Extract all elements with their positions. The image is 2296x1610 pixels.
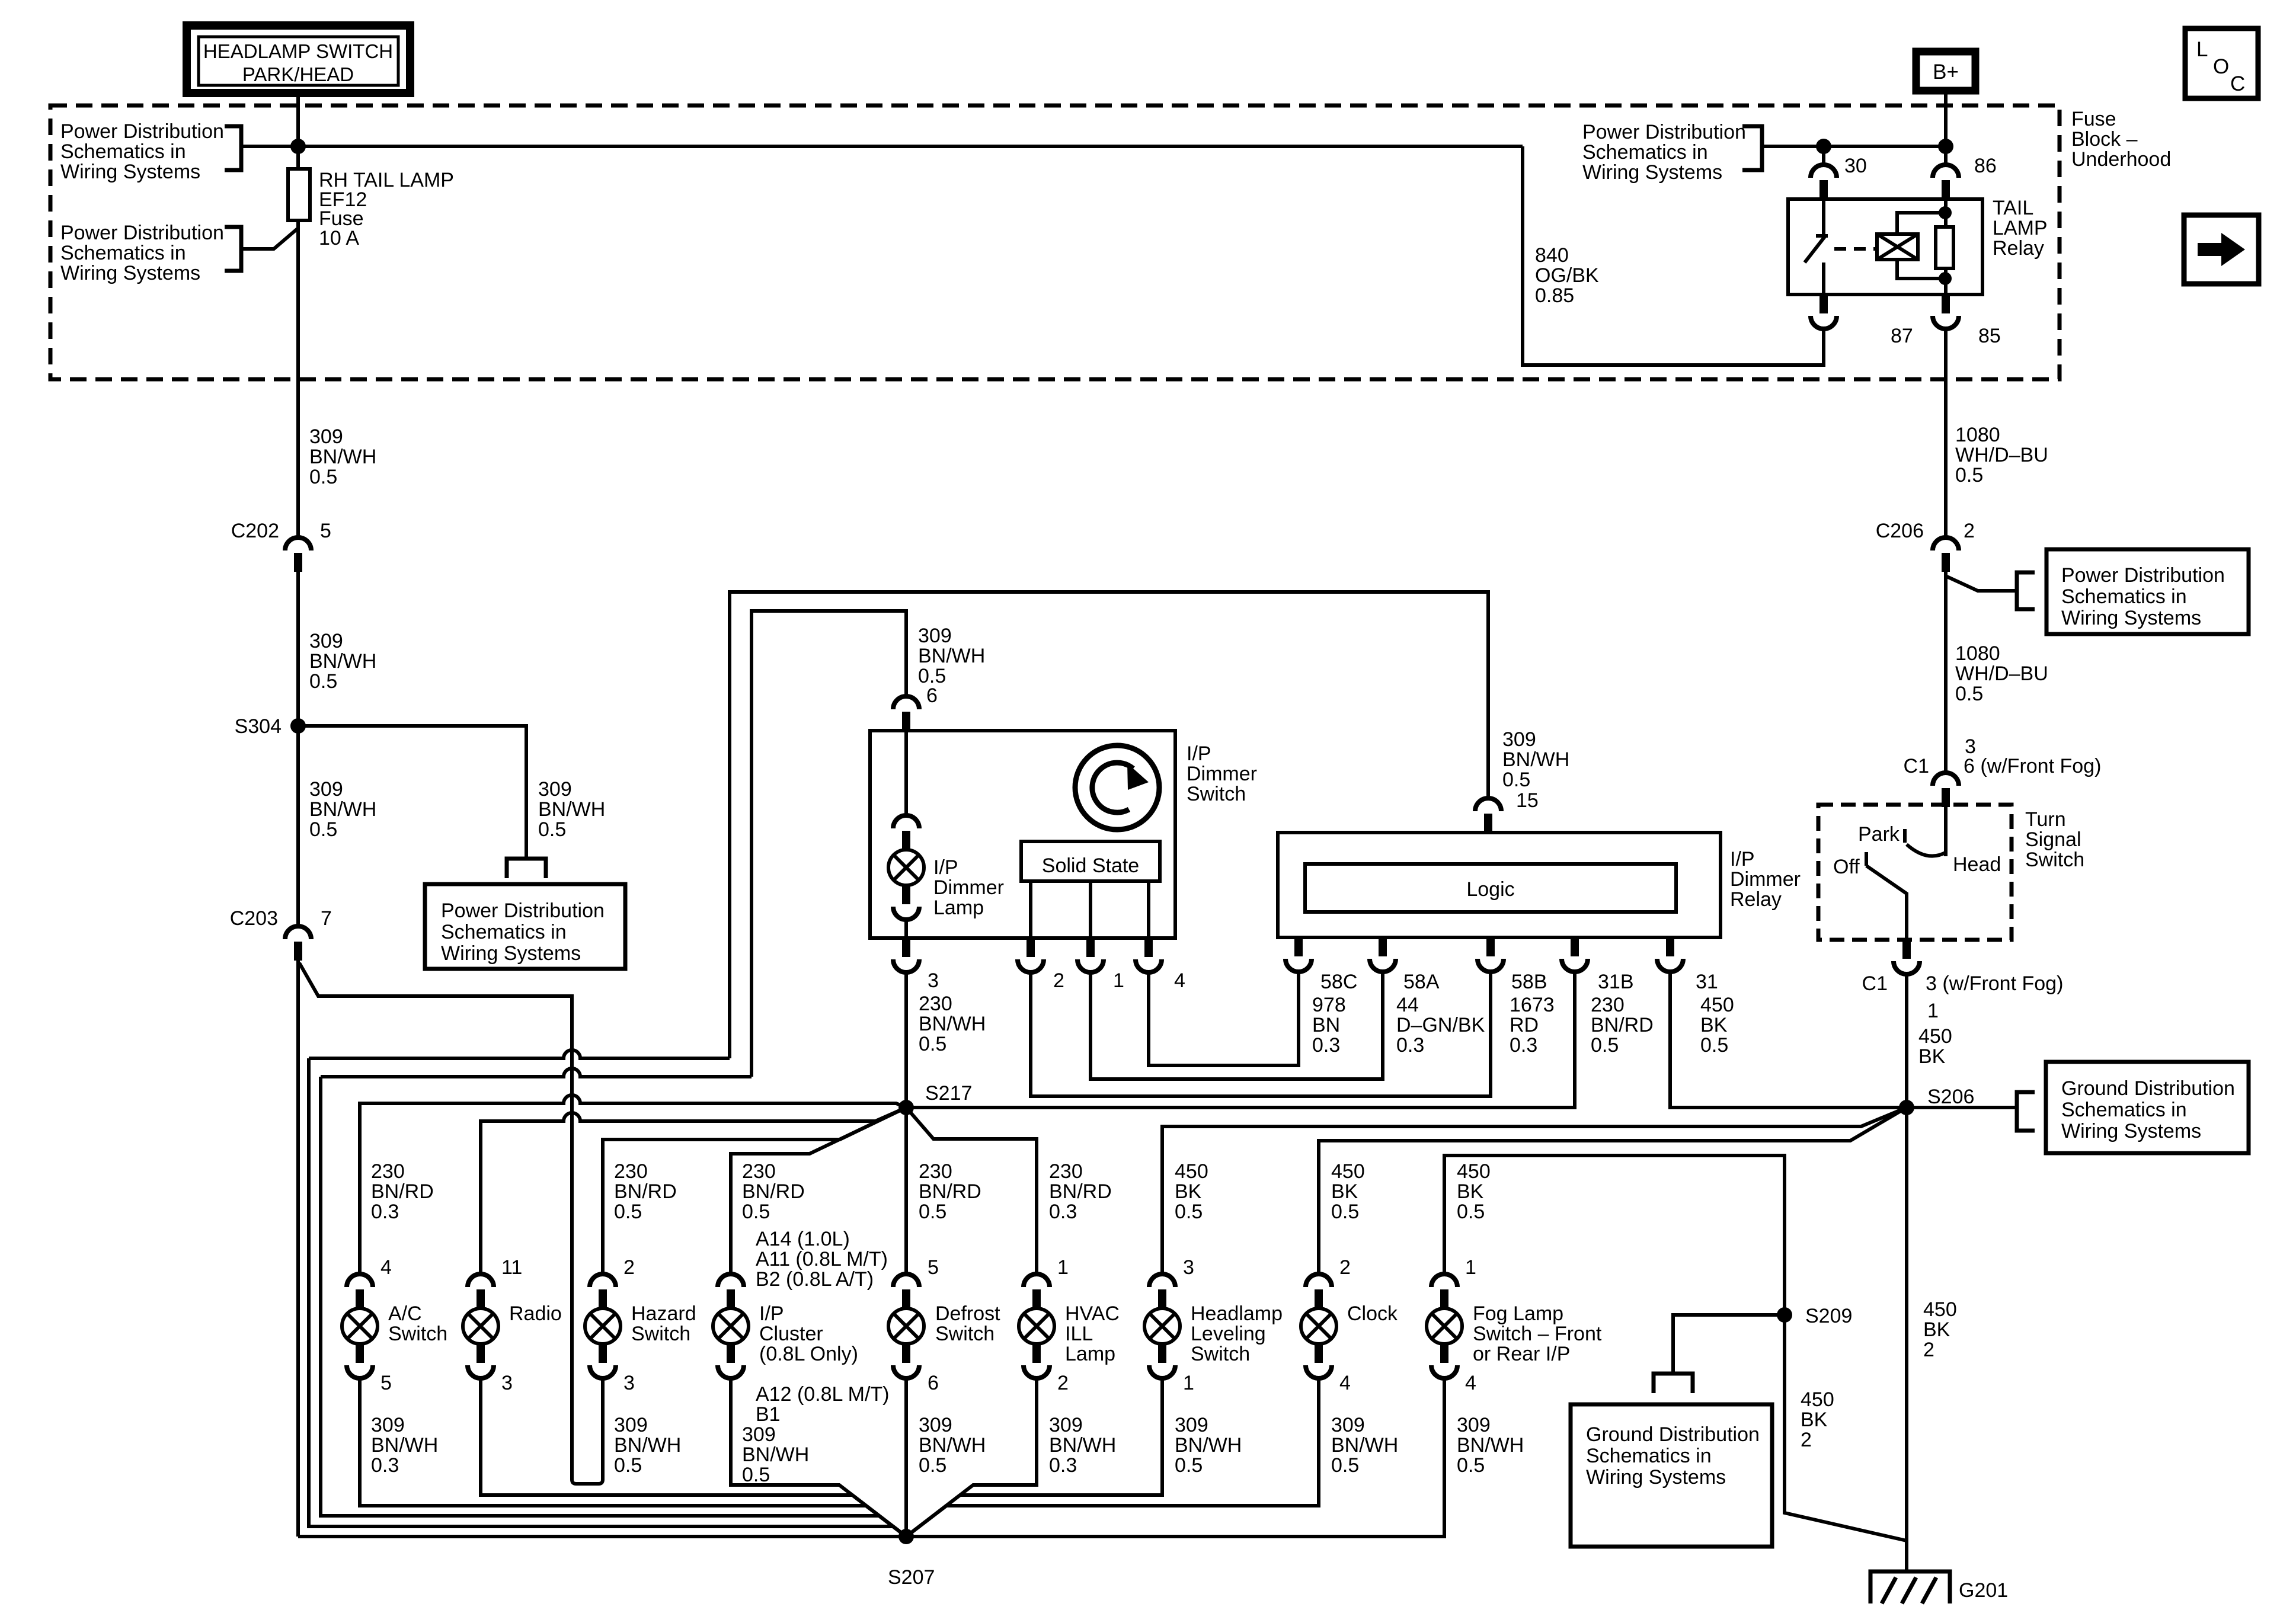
svg-text:Cluster: Cluster <box>759 1323 823 1345</box>
svg-text:BN/WH: BN/WH <box>614 1434 681 1457</box>
svg-text:0.5: 0.5 <box>309 466 337 488</box>
svg-text:I/P: I/P <box>933 856 958 879</box>
svg-text:Ground Distribution: Ground Distribution <box>1586 1423 1760 1446</box>
svg-text:C206: C206 <box>1876 520 1924 542</box>
svg-text:230: 230 <box>1591 994 1625 1016</box>
svg-text:0.85: 0.85 <box>1535 284 1574 307</box>
svg-text:Underhood: Underhood <box>2071 148 2171 171</box>
svg-text:0.5: 0.5 <box>742 1464 770 1486</box>
svg-text:Switch: Switch <box>935 1323 994 1345</box>
svg-text:Clock: Clock <box>1347 1302 1398 1325</box>
svg-text:0.5: 0.5 <box>1502 769 1530 791</box>
svg-text:0.5: 0.5 <box>1331 1454 1359 1477</box>
svg-text:2: 2 <box>1964 520 1975 542</box>
svg-text:4: 4 <box>1174 969 1185 992</box>
svg-text:Switch: Switch <box>1191 1343 1250 1365</box>
svg-text:S209: S209 <box>1805 1305 1852 1327</box>
svg-text:3: 3 <box>501 1372 513 1394</box>
svg-text:BN/WH: BN/WH <box>538 798 605 821</box>
svg-text:0.5: 0.5 <box>1700 1034 1728 1057</box>
svg-text:450: 450 <box>1801 1388 1834 1411</box>
svg-text:11: 11 <box>501 1256 522 1279</box>
svg-text:Park: Park <box>1858 823 1900 846</box>
svg-text:309: 309 <box>309 425 343 448</box>
svg-text:0.3: 0.3 <box>371 1201 399 1223</box>
svg-text:B1: B1 <box>756 1403 781 1426</box>
svg-text:BN/RD: BN/RD <box>371 1180 434 1203</box>
svg-text:1: 1 <box>1113 969 1124 992</box>
svg-text:450: 450 <box>1331 1160 1365 1183</box>
svg-text:Switch: Switch <box>631 1323 690 1345</box>
svg-text:Defrost: Defrost <box>935 1302 1000 1325</box>
svg-text:BN/WH: BN/WH <box>309 446 376 468</box>
svg-text:BK: BK <box>1918 1045 1946 1068</box>
svg-text:Switch: Switch <box>2025 849 2084 871</box>
svg-text:309: 309 <box>1175 1414 1208 1436</box>
svg-text:PARK/HEAD: PARK/HEAD <box>242 63 354 85</box>
svg-text:6 (w/Front Fog): 6 (w/Front Fog) <box>1964 755 2101 777</box>
svg-text:HVAC: HVAC <box>1065 1302 1120 1325</box>
svg-text:BN/WH: BN/WH <box>1457 1434 1524 1457</box>
svg-text:Power Distribution: Power Distribution <box>441 900 605 922</box>
svg-text:C: C <box>2230 72 2245 95</box>
svg-text:0.5: 0.5 <box>919 1201 946 1223</box>
svg-text:1080: 1080 <box>1955 642 2000 665</box>
svg-text:309: 309 <box>1502 728 1536 751</box>
svg-text:S206: S206 <box>1927 1086 1974 1108</box>
svg-text:BN/WH: BN/WH <box>919 1013 986 1035</box>
svg-text:D–GN/BK: D–GN/BK <box>1396 1014 1485 1036</box>
svg-text:Schematics in: Schematics in <box>2061 585 2187 608</box>
svg-text:0.5: 0.5 <box>1457 1454 1485 1477</box>
svg-text:4: 4 <box>380 1256 392 1279</box>
svg-text:Headlamp: Headlamp <box>1191 1302 1283 1325</box>
svg-text:0.5: 0.5 <box>919 1454 946 1477</box>
svg-text:BN/WH: BN/WH <box>309 798 376 821</box>
svg-text:Fog Lamp: Fog Lamp <box>1473 1302 1563 1325</box>
svg-text:309: 309 <box>918 625 952 647</box>
svg-text:Radio: Radio <box>509 1302 562 1325</box>
svg-text:BN/WH: BN/WH <box>1049 1434 1116 1457</box>
svg-text:5: 5 <box>320 520 331 542</box>
svg-text:230: 230 <box>742 1160 776 1183</box>
svg-text:0.5: 0.5 <box>1331 1201 1359 1223</box>
svg-text:0.5: 0.5 <box>1591 1034 1619 1057</box>
svg-text:58B: 58B <box>1511 971 1547 993</box>
svg-text:309: 309 <box>538 778 572 801</box>
svg-text:C1: C1 <box>1862 972 1888 995</box>
svg-text:Lamp: Lamp <box>933 897 984 919</box>
svg-text:I/P: I/P <box>1730 848 1755 870</box>
svg-text:1673: 1673 <box>1510 994 1555 1016</box>
svg-text:0.5: 0.5 <box>742 1201 770 1223</box>
svg-text:5: 5 <box>380 1372 392 1394</box>
svg-text:450: 450 <box>1918 1025 1952 1048</box>
svg-text:2: 2 <box>1053 969 1064 992</box>
svg-text:Schematics in: Schematics in <box>60 140 186 163</box>
svg-text:S207: S207 <box>888 1566 935 1589</box>
svg-text:WH/D–BU: WH/D–BU <box>1955 444 2048 466</box>
svg-text:230: 230 <box>919 993 952 1015</box>
svg-text:Switch: Switch <box>388 1323 447 1345</box>
svg-text:Dimmer: Dimmer <box>1187 763 1257 785</box>
svg-text:309: 309 <box>309 630 343 652</box>
svg-text:2: 2 <box>623 1256 635 1279</box>
svg-text:2: 2 <box>1057 1372 1069 1394</box>
svg-text:RD: RD <box>1510 1014 1539 1036</box>
svg-text:Turn: Turn <box>2025 808 2066 831</box>
svg-text:15: 15 <box>1516 789 1539 812</box>
svg-text:Relay: Relay <box>1730 888 1782 911</box>
svg-text:Wiring Systems: Wiring Systems <box>2061 1120 2201 1142</box>
svg-text:309: 309 <box>614 1414 648 1436</box>
svg-text:1: 1 <box>1927 1000 1939 1022</box>
svg-text:6: 6 <box>928 1372 939 1394</box>
svg-text:Dimmer: Dimmer <box>1730 868 1801 891</box>
svg-text:0.5: 0.5 <box>309 670 337 693</box>
svg-text:Switch: Switch <box>1187 783 1246 805</box>
svg-text:Signal: Signal <box>2025 828 2081 851</box>
svg-text:Schematics in: Schematics in <box>1582 141 1708 164</box>
svg-text:4: 4 <box>1465 1372 1476 1394</box>
svg-text:BN/RD: BN/RD <box>1591 1014 1654 1036</box>
svg-text:309: 309 <box>371 1414 405 1436</box>
svg-text:309: 309 <box>1457 1414 1491 1436</box>
svg-text:Switch – Front: Switch – Front <box>1473 1323 1602 1345</box>
svg-text:58C: 58C <box>1320 971 1357 993</box>
svg-text:Power Distribution: Power Distribution <box>1582 121 1746 143</box>
svg-text:Schematics in: Schematics in <box>2061 1099 2187 1121</box>
svg-text:0.5: 0.5 <box>1955 683 1983 705</box>
svg-text:85: 85 <box>1978 325 2001 347</box>
svg-text:BN/WH: BN/WH <box>371 1434 438 1457</box>
svg-text:S304: S304 <box>235 715 282 738</box>
svg-text:31: 31 <box>1696 971 1718 993</box>
svg-text:C1: C1 <box>1904 755 1929 777</box>
svg-text:1: 1 <box>1057 1256 1069 1279</box>
svg-text:BK: BK <box>1331 1180 1358 1203</box>
svg-text:31B: 31B <box>1598 971 1634 993</box>
svg-text:230: 230 <box>371 1160 405 1183</box>
svg-text:0.3: 0.3 <box>1396 1034 1424 1057</box>
svg-text:0.5: 0.5 <box>538 818 566 841</box>
svg-text:or Rear I/P: or Rear I/P <box>1473 1343 1570 1365</box>
svg-text:S217: S217 <box>925 1082 972 1105</box>
svg-text:3 (w/Front Fog): 3 (w/Front Fog) <box>1926 972 2063 995</box>
svg-text:Wiring Systems: Wiring Systems <box>60 262 200 284</box>
svg-text:BK: BK <box>1923 1318 1950 1341</box>
svg-text:230: 230 <box>614 1160 648 1183</box>
svg-text:Wiring Systems: Wiring Systems <box>2061 607 2201 629</box>
svg-text:BK: BK <box>1457 1180 1484 1203</box>
svg-text:3: 3 <box>623 1372 635 1394</box>
svg-text:Lamp: Lamp <box>1065 1343 1115 1365</box>
svg-text:(0.8L Only): (0.8L Only) <box>759 1343 858 1365</box>
svg-text:3: 3 <box>1183 1256 1194 1279</box>
svg-text:Logic: Logic <box>1466 878 1514 901</box>
svg-text:0.3: 0.3 <box>1049 1201 1077 1223</box>
svg-text:A11 (0.8L M/T): A11 (0.8L M/T) <box>756 1248 888 1270</box>
svg-text:Ground Distribution: Ground Distribution <box>2061 1077 2235 1100</box>
svg-text:B+: B+ <box>1933 60 1959 84</box>
svg-text:10 A: 10 A <box>319 227 359 249</box>
svg-text:0.3: 0.3 <box>1312 1034 1340 1057</box>
svg-text:Schematics in: Schematics in <box>1586 1445 1712 1467</box>
svg-text:0.5: 0.5 <box>1955 464 1983 486</box>
svg-text:2: 2 <box>1339 1256 1351 1279</box>
svg-text:BN/WH: BN/WH <box>1331 1434 1398 1457</box>
svg-text:309: 309 <box>919 1414 952 1436</box>
svg-text:I/P: I/P <box>759 1302 784 1325</box>
svg-text:5: 5 <box>928 1256 939 1279</box>
svg-text:0.5: 0.5 <box>309 818 337 841</box>
svg-text:Wiring Systems: Wiring Systems <box>1582 161 1722 184</box>
svg-text:Block –: Block – <box>2071 128 2138 151</box>
svg-text:BN/WH: BN/WH <box>1175 1434 1242 1457</box>
svg-text:Power Distribution: Power Distribution <box>2061 564 2225 587</box>
svg-text:G201: G201 <box>1959 1579 2008 1602</box>
svg-text:C202: C202 <box>231 520 279 542</box>
svg-text:450: 450 <box>1923 1298 1957 1321</box>
svg-text:Hazard: Hazard <box>631 1302 696 1325</box>
svg-text:1: 1 <box>1183 1372 1194 1394</box>
svg-text:BN: BN <box>1312 1014 1340 1036</box>
svg-text:2: 2 <box>1923 1339 1934 1361</box>
svg-text:Dimmer: Dimmer <box>933 876 1004 899</box>
svg-text:Power Distribution: Power Distribution <box>60 120 224 143</box>
svg-text:230: 230 <box>919 1160 952 1183</box>
svg-text:0.5: 0.5 <box>1175 1201 1203 1223</box>
svg-text:BN/WH: BN/WH <box>1502 748 1569 771</box>
svg-text:C203: C203 <box>230 907 278 930</box>
svg-text:44: 44 <box>1396 994 1419 1016</box>
svg-text:7: 7 <box>321 907 332 930</box>
svg-text:309: 309 <box>1331 1414 1365 1436</box>
svg-text:0.5: 0.5 <box>1175 1454 1203 1477</box>
svg-text:BN/WH: BN/WH <box>742 1443 809 1466</box>
svg-text:BK: BK <box>1700 1014 1728 1036</box>
svg-text:0.3: 0.3 <box>371 1454 399 1477</box>
svg-text:Relay: Relay <box>1993 237 2044 260</box>
svg-text:BN/RD: BN/RD <box>1049 1180 1112 1203</box>
svg-text:B2 (0.8L A/T): B2 (0.8L A/T) <box>756 1268 874 1291</box>
svg-text:2: 2 <box>1801 1429 1812 1451</box>
svg-text:6: 6 <box>926 684 938 707</box>
svg-text:Schematics in: Schematics in <box>60 242 186 264</box>
svg-text:BN/WH: BN/WH <box>309 650 376 673</box>
svg-text:Power Distribution: Power Distribution <box>60 222 224 244</box>
svg-text:I/P: I/P <box>1187 742 1211 765</box>
svg-text:1: 1 <box>1465 1256 1476 1279</box>
svg-text:ILL: ILL <box>1065 1323 1093 1345</box>
svg-text:0.5: 0.5 <box>1457 1201 1485 1223</box>
svg-text:TAIL: TAIL <box>1993 197 2033 219</box>
svg-text:Fuse: Fuse <box>2071 108 2116 130</box>
svg-text:30: 30 <box>1844 155 1867 177</box>
svg-text:HEADLAMP SWITCH: HEADLAMP SWITCH <box>203 40 393 62</box>
svg-text:840: 840 <box>1535 244 1569 267</box>
svg-text:BN/WH: BN/WH <box>918 645 985 667</box>
svg-text:BK: BK <box>1175 1180 1202 1203</box>
svg-text:0.5: 0.5 <box>614 1454 642 1477</box>
svg-text:LAMP: LAMP <box>1993 217 2048 239</box>
svg-text:978: 978 <box>1312 994 1346 1016</box>
svg-text:86: 86 <box>1974 155 1997 177</box>
svg-text:A14 (1.0L): A14 (1.0L) <box>756 1228 850 1250</box>
svg-text:450: 450 <box>1457 1160 1491 1183</box>
svg-text:309: 309 <box>309 778 343 801</box>
svg-text:3: 3 <box>928 969 939 992</box>
svg-text:BK: BK <box>1801 1409 1828 1431</box>
svg-text:Solid State: Solid State <box>1042 854 1139 877</box>
svg-text:309: 309 <box>742 1423 776 1446</box>
svg-text:0.5: 0.5 <box>614 1201 642 1223</box>
svg-text:Wiring Systems: Wiring Systems <box>1586 1466 1726 1489</box>
svg-text:0.3: 0.3 <box>1510 1034 1537 1057</box>
svg-text:A12 (0.8L M/T): A12 (0.8L M/T) <box>756 1383 889 1406</box>
svg-text:Off: Off <box>1833 856 1860 878</box>
svg-text:0.5: 0.5 <box>919 1033 946 1055</box>
svg-text:Wiring Systems: Wiring Systems <box>60 161 200 183</box>
svg-text:58A: 58A <box>1403 971 1440 993</box>
svg-text:0.3: 0.3 <box>1049 1454 1077 1477</box>
svg-text:BN/RD: BN/RD <box>919 1180 981 1203</box>
svg-text:230: 230 <box>1049 1160 1083 1183</box>
svg-text:1080: 1080 <box>1955 424 2000 446</box>
svg-text:BN/RD: BN/RD <box>742 1180 805 1203</box>
svg-text:Leveling: Leveling <box>1191 1323 1266 1345</box>
svg-text:OG/BK: OG/BK <box>1535 264 1599 287</box>
svg-text:L: L <box>2196 38 2208 61</box>
svg-text:Schematics in: Schematics in <box>441 921 567 943</box>
svg-text:450: 450 <box>1175 1160 1208 1183</box>
svg-text:A/C: A/C <box>388 1302 422 1325</box>
svg-text:BN/WH: BN/WH <box>919 1434 986 1457</box>
svg-text:Wiring Systems: Wiring Systems <box>441 942 581 965</box>
svg-text:450: 450 <box>1700 994 1734 1016</box>
svg-text:4: 4 <box>1339 1372 1351 1394</box>
svg-text:O: O <box>2213 55 2229 78</box>
svg-text:87: 87 <box>1891 325 1913 347</box>
svg-text:309: 309 <box>1049 1414 1083 1436</box>
svg-text:WH/D–BU: WH/D–BU <box>1955 662 2048 685</box>
svg-text:BN/RD: BN/RD <box>614 1180 677 1203</box>
svg-text:Head: Head <box>1953 853 2001 876</box>
